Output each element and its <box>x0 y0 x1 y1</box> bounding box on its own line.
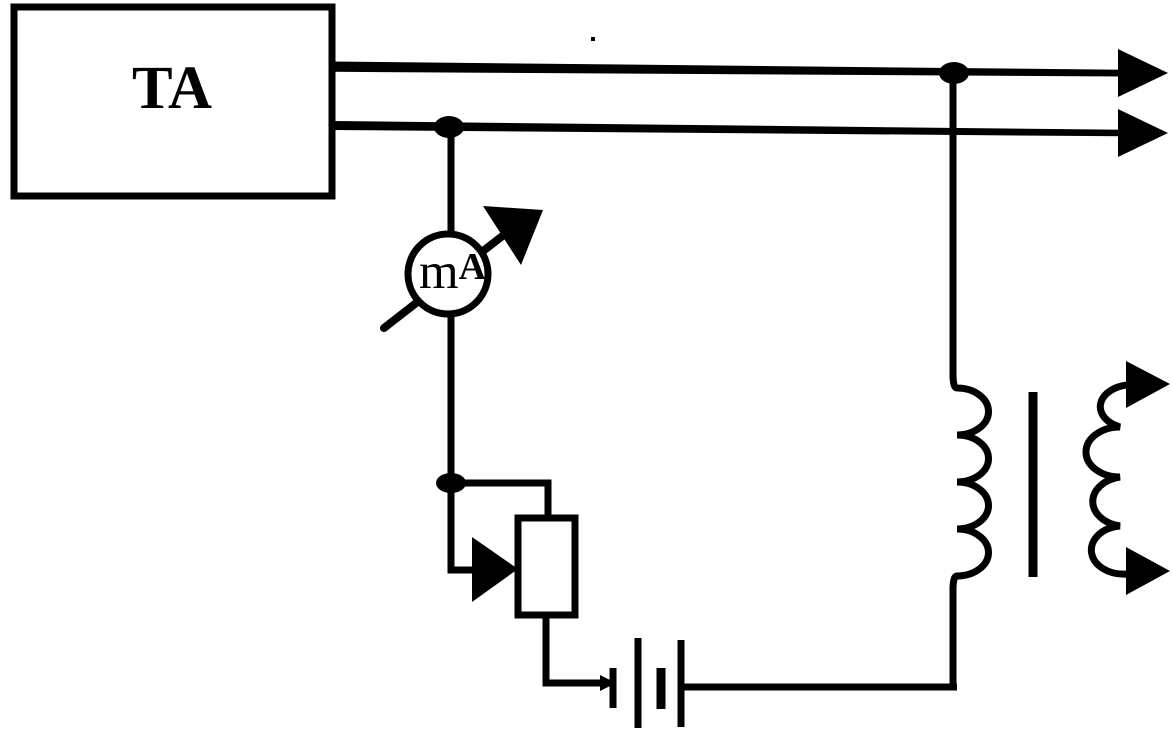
wire: vertical lead from top-lead junction down to primary winding (crosses bottom lead) <box>950 73 957 378</box>
arrowhead: rheostat wiper arrow <box>472 537 518 602</box>
rheostat R (resistor body) <box>518 518 575 615</box>
wire: junction down and right to wiper arrow <box>451 483 476 570</box>
node: junction dot at rheostat top branch <box>436 473 466 493</box>
primary winding of transformer <box>953 374 989 590</box>
wire: junction right and down to rheostat top terminal <box>451 483 548 521</box>
arrowhead on bottom output lead <box>1118 109 1168 157</box>
wire: primary winding bottom down to battery wire <box>950 586 957 690</box>
milliammeter mA <box>408 234 488 314</box>
wire: rheostat bottom terminal down and right to battery <box>546 615 610 683</box>
current transformer box TA <box>14 7 332 196</box>
battery GB plate 1 (short) <box>610 668 617 708</box>
arrowhead on top output lead <box>1118 49 1168 97</box>
arrow shaft: adjustability arrow through milliammeter <box>384 234 505 328</box>
node: junction dot on top lead at primary winding branch <box>939 62 969 84</box>
arrowhead: secondary winding bottom terminal <box>1126 547 1170 595</box>
wire: from milliammeter down to rheostat junction <box>448 311 455 483</box>
speck artifact top middle <box>591 37 595 41</box>
wire: top output lead from TA to right arrow <box>332 62 1124 77</box>
node: junction dot on bottom lead above milliammeter <box>434 116 464 138</box>
arrowhead: adjustability arrow head <box>483 206 543 265</box>
transformer core bar <box>1029 392 1038 577</box>
battery GB plate 2 (long) <box>635 638 642 728</box>
wire: battery to primary winding bottom <box>681 684 957 691</box>
wire: bottom output lead from TA to right arrow <box>332 121 1124 136</box>
secondary winding of transformer <box>1086 385 1127 574</box>
battery GB plate 4 (long) <box>678 640 685 727</box>
svg-text:TA: TA <box>132 55 212 122</box>
wire: from bottom lead junction down to milliammeter <box>448 128 455 238</box>
battery GB plate 3 (short) <box>657 668 666 709</box>
arrow tip at battery negative plate <box>600 675 616 691</box>
arrowhead: secondary winding top terminal <box>1126 361 1170 408</box>
